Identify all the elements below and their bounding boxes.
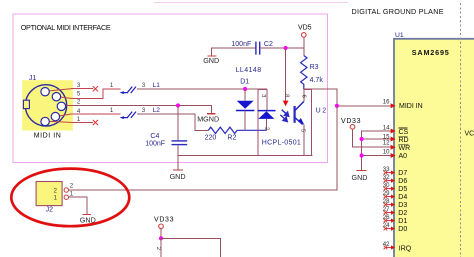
svg-text:32: 32 <box>383 174 390 181</box>
svg-text:GND: GND <box>203 56 219 65</box>
junction pin10 <box>360 153 364 157</box>
svg-text:C4: C4 <box>150 133 159 140</box>
svg-text:12: 12 <box>383 140 390 147</box>
svg-text:D6: D6 <box>398 178 407 185</box>
svg-text:U2: U2 <box>316 108 327 115</box>
svg-text:26: 26 <box>383 214 390 221</box>
svg-text:D0: D0 <box>398 226 407 233</box>
wire J1 pin1 stub <box>49 121 71 122</box>
svg-text:VD5: VD5 <box>298 24 312 31</box>
power port VD5 <box>298 24 312 48</box>
capacitor C4 <box>172 106 188 156</box>
svg-text:MIDI IN: MIDI IN <box>399 103 423 110</box>
svg-text:30: 30 <box>383 182 390 189</box>
wire C2 right to VD5 node <box>260 47 304 49</box>
resistor R2 <box>208 127 266 133</box>
svg-text:OPTIONAL MIDI INTERFACE: OPTIONAL MIDI INTERFACE <box>21 23 111 32</box>
junction at pin8 drop <box>284 46 288 50</box>
svg-text:J2: J2 <box>46 207 54 214</box>
svg-text:4: 4 <box>77 108 81 115</box>
svg-text:D1: D1 <box>398 218 407 225</box>
junction VD33 bottom <box>159 236 163 240</box>
wire J1 pin3 stub <box>49 89 71 91</box>
svg-text:WR: WR <box>399 145 411 152</box>
svg-text:220: 220 <box>205 135 217 142</box>
svg-text:LL4148: LL4148 <box>236 67 262 74</box>
svg-text:GND: GND <box>352 173 368 182</box>
svg-text:1: 1 <box>77 116 81 123</box>
svg-text:DIGITAL GROUND PLANE: DIGITAL GROUND PLANE <box>352 7 444 16</box>
junction L1 / D1 <box>243 87 247 91</box>
connector J1 pin circles <box>41 88 66 126</box>
svg-text:4.7k: 4.7k <box>310 77 324 84</box>
wire J1 pin5 to L1 row <box>60 97 71 98</box>
svg-text:16: 16 <box>383 98 390 105</box>
wire L2 to R2 <box>137 114 208 130</box>
svg-text:MGND: MGND <box>197 114 219 123</box>
ground MGND <box>197 114 219 124</box>
optocoupler pin numbers <box>260 94 306 133</box>
wire J2 pin1 to GND <box>69 197 87 214</box>
connector J2 <box>36 182 74 206</box>
svg-text:L1: L1 <box>153 82 161 89</box>
svg-text:A0: A0 <box>399 153 408 160</box>
svg-text:IRQ: IRQ <box>399 246 412 253</box>
faint clipped border of block above <box>154 2 348 4</box>
chip pin names <box>399 103 423 160</box>
svg-text:3: 3 <box>77 82 81 89</box>
svg-text:D1: D1 <box>240 79 249 86</box>
power port VD33 (bottom) <box>154 217 174 239</box>
wire MIDI IN net to chip <box>337 105 394 107</box>
svg-text:14: 14 <box>383 125 390 132</box>
wire L1 to U2 <box>137 88 267 90</box>
pin 8 arrow <box>283 101 289 107</box>
optocoupler light arrows <box>280 110 288 122</box>
svg-text:VD33: VD33 <box>341 118 361 125</box>
svg-text:1: 1 <box>70 191 74 198</box>
svg-text:100nF: 100nF <box>145 141 165 148</box>
optocoupler LED <box>258 89 276 130</box>
junction pin15 <box>360 137 364 141</box>
power port VD33 (at chip) <box>341 118 394 147</box>
ground GND (chip) <box>352 171 368 183</box>
wire chip pin14 <box>362 131 394 170</box>
svg-text:1: 1 <box>54 195 58 202</box>
inductor L1 ferrite bead <box>120 87 136 95</box>
svg-text:R2: R2 <box>227 135 236 142</box>
no-connect X pin1 <box>93 120 98 125</box>
svg-text:GND: GND <box>170 172 186 181</box>
wire chip pin15 <box>362 138 394 140</box>
wire chip pin10 <box>362 155 394 157</box>
svg-text:MIDI IN: MIDI IN <box>34 132 61 139</box>
svg-text:D2: D2 <box>398 210 407 217</box>
svg-text:CS: CS <box>399 129 409 136</box>
svg-text:D7: D7 <box>398 170 407 177</box>
svg-text:2: 2 <box>155 247 161 250</box>
connector J1 highlight <box>22 80 73 130</box>
svg-text:U1: U1 <box>395 32 404 39</box>
connector J1 DIN circle <box>25 85 66 126</box>
diode D1 <box>236 89 255 130</box>
wire pin8 vertical <box>285 48 287 101</box>
optocoupler phototransistor <box>295 89 305 155</box>
svg-text:SAM2695: SAM2695 <box>412 48 449 57</box>
chip pin numbers <box>383 98 390 155</box>
svg-text:27: 27 <box>383 206 390 213</box>
svg-text:D4: D4 <box>398 194 407 201</box>
wire J2 net riser <box>69 106 337 190</box>
svg-text:R3: R3 <box>310 64 319 71</box>
svg-text:2: 2 <box>77 99 81 106</box>
optocoupler U2 box <box>258 90 312 156</box>
junction J1 pin2 / C4 <box>176 103 180 107</box>
connector J1 pin numbers <box>77 82 81 123</box>
junction MIDI IN node <box>335 104 339 108</box>
wire J1 pin4 to L2 row <box>59 114 71 116</box>
no-connect X pin3 <box>93 86 98 91</box>
ground GND (J2) <box>80 215 96 225</box>
svg-text:5: 5 <box>300 129 306 133</box>
ground GND (near C2) <box>203 56 219 65</box>
wire VD33 down <box>160 238 162 257</box>
chip data pins D7-D0 <box>383 166 412 252</box>
svg-text:RD: RD <box>399 137 409 144</box>
svg-text:8: 8 <box>283 94 289 98</box>
wire VD33 right branch <box>161 238 221 257</box>
wire bottom rail <box>178 155 313 157</box>
svg-text:C2: C2 <box>264 41 273 48</box>
svg-text:2: 2 <box>54 188 58 195</box>
svg-text:100nF: 100nF <box>231 41 251 48</box>
svg-text:1: 1 <box>110 107 114 114</box>
svg-text:24: 24 <box>383 222 390 229</box>
optional MIDI interface region border <box>13 14 328 163</box>
svg-text:2: 2 <box>70 183 74 190</box>
svg-text:D3: D3 <box>398 202 407 209</box>
svg-text:HCPL-0501: HCPL-0501 <box>262 140 301 147</box>
resistor R3 <box>301 48 307 89</box>
ground GND (under C4) <box>170 156 186 182</box>
inductor L2 ferrite bead <box>120 112 136 120</box>
overlines CS RD WR <box>399 128 409 144</box>
svg-text:J1: J1 <box>29 75 37 82</box>
svg-text:28: 28 <box>383 198 390 205</box>
annotation red ellipse <box>11 169 129 227</box>
svg-text:1: 1 <box>110 82 114 89</box>
wire R3 bottom to MIDI IN node <box>304 89 337 106</box>
svg-text:2: 2 <box>264 127 270 130</box>
svg-text:VD33: VD33 <box>154 217 174 224</box>
svg-text:3: 3 <box>142 107 146 114</box>
inductor L2 labels <box>110 107 146 114</box>
svg-text:10: 10 <box>383 148 390 155</box>
chip pin arrows <box>391 103 396 158</box>
connector J1 notch <box>23 100 29 108</box>
wire C2 left to GND <box>211 48 255 55</box>
svg-text:33: 33 <box>383 166 390 173</box>
chip U1 SAM2695 body <box>394 39 474 257</box>
svg-text:3: 3 <box>142 82 146 89</box>
svg-text:29: 29 <box>383 190 390 197</box>
svg-text:5: 5 <box>77 91 81 98</box>
svg-text:L2: L2 <box>153 107 161 114</box>
wire J1 pin2 long <box>66 105 71 107</box>
svg-text:VCC: VCC <box>465 130 474 137</box>
svg-text:3: 3 <box>260 94 266 98</box>
svg-text:42: 42 <box>383 241 390 248</box>
svg-text:D5: D5 <box>398 186 407 193</box>
capacitor C2 plates <box>256 42 260 55</box>
inductor L1 labels <box>110 82 146 89</box>
dashed boundary line <box>460 3 462 257</box>
